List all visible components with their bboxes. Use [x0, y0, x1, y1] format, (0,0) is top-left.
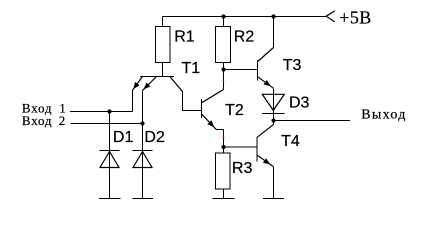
- junction input1-D1: [107, 109, 111, 113]
- diode D1 triangle: [100, 152, 119, 168]
- svg-text:2: 2: [59, 113, 66, 128]
- red mark on T2 emitter node wire: [223, 137, 225, 139]
- junction input2-D2: [140, 121, 144, 125]
- transistor T1 collector diagonal: [170, 77, 183, 92]
- svg-text:R2: R2: [234, 29, 255, 46]
- wire R3 bottom lead: [223, 189, 225, 199]
- wire T1 collector to T2 base: [183, 92, 202, 111]
- transistor T3 base bar: [257, 60, 259, 80]
- wire D1 vertical: [109, 112, 111, 199]
- junction rail-T3: [271, 14, 275, 18]
- diode D2 triangle: [133, 152, 152, 168]
- transistor T2 emitter diagonal: [202, 114, 216, 129]
- wire +5V rail: [163, 16, 327, 18]
- wire R1 top lead: [162, 17, 164, 27]
- wire node to T4 base: [224, 146, 258, 148]
- transistor T4 emitter diagonal: [257, 155, 273, 167]
- svg-text:D3: D3: [289, 95, 310, 112]
- svg-text:T3: T3: [283, 57, 302, 74]
- red mark on T2 collector wire: [223, 80, 225, 82]
- svg-text:D2: D2: [144, 129, 165, 146]
- wire T4 collector vertical: [273, 121, 275, 125]
- wire R1 bottom lead: [162, 63, 164, 77]
- diode D3 cathode bar: [262, 113, 285, 115]
- transistor T4 base bar: [256, 137, 258, 162]
- arrowhead T4 emitter: [263, 158, 270, 164]
- wire R2 top lead: [223, 17, 225, 27]
- resistor R3 body: [216, 153, 231, 189]
- transistor T3 emitter diagonal: [258, 77, 274, 89]
- ground symbol D2: [133, 198, 154, 200]
- wire R2 bottom lead: [223, 63, 225, 70]
- wire input line 2: [71, 123, 143, 125]
- arrowhead T2 emitter: [207, 120, 214, 127]
- wire T2 emitter jog to node: [216, 129, 224, 147]
- wire output line: [274, 120, 351, 122]
- diode D3 triangle: [262, 94, 284, 110]
- power terminal +5V chevron: [326, 11, 335, 22]
- transistor T1 base bar: [140, 76, 174, 78]
- junction node R2-T2-T3: [221, 67, 225, 71]
- transistor T3 collector diagonal: [258, 48, 274, 62]
- transistor T4 collector diagonal: [257, 125, 273, 138]
- wire T1 emitter2 down to D2: [142, 90, 144, 123]
- svg-text:Выход: Выход: [361, 108, 406, 123]
- junction rail-R2: [221, 14, 225, 18]
- diode D1 cathode bar: [100, 150, 120, 152]
- diode D2 cathode bar: [133, 150, 153, 152]
- ground symbol D1: [99, 198, 121, 200]
- transistor T2 collector diagonal: [202, 90, 224, 103]
- wire D3 vertical: [273, 88, 275, 120]
- junction D3-output-T4: [271, 118, 275, 122]
- wire input line 1: [70, 111, 133, 113]
- wire T2 collector vertical: [223, 70, 225, 90]
- svg-text:T1: T1: [182, 60, 201, 77]
- wire T4 emitter to ground: [273, 167, 275, 199]
- ground symbol R3: [213, 198, 235, 200]
- wire T3 collector vertical: [273, 17, 275, 48]
- wire D2 vertical: [142, 124, 144, 199]
- wire node to T3 base: [224, 69, 258, 71]
- arrowhead T3 emitter: [264, 80, 271, 86]
- arrowhead T1 emitter 1: [133, 82, 139, 89]
- wire R3 top lead: [223, 147, 225, 153]
- junction node T2em-R3-T4: [221, 145, 225, 149]
- transistor T1 emitter 2 diagonal: [143, 77, 157, 91]
- ground symbol T4: [263, 198, 284, 200]
- svg-text:D1: D1: [113, 129, 134, 146]
- svg-text:R1: R1: [174, 29, 195, 46]
- arrowhead T1 emitter 2: [144, 83, 151, 90]
- svg-text:Вход: Вход: [22, 113, 52, 128]
- svg-text:+5В: +5В: [339, 7, 371, 27]
- svg-text:T4: T4: [281, 133, 300, 150]
- svg-text:R3: R3: [232, 160, 253, 177]
- resistor R2 body: [216, 27, 231, 63]
- transistor T1 emitter 1 diagonal: [133, 77, 143, 91]
- resistor R1 body: [156, 27, 171, 63]
- svg-text:T2: T2: [225, 102, 244, 119]
- transistor T2 base bar: [201, 99, 203, 118]
- wire T1 emitter1 to input1: [132, 90, 134, 111]
